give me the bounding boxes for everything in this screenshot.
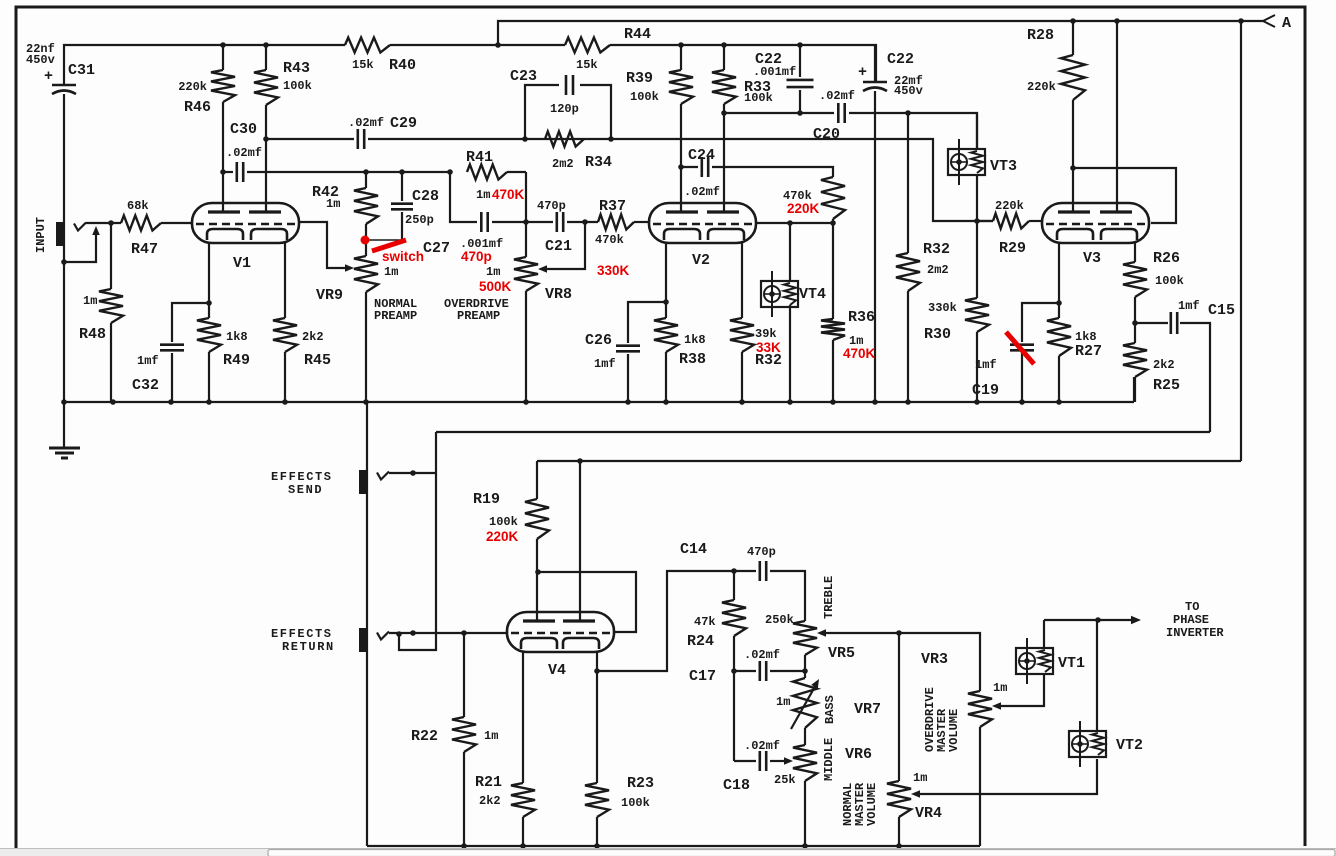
- wire B+ rail y45 (left of R40): [64, 45, 345, 85]
- bottom ground rail: [367, 845, 980, 847]
- wire B+ rail y45 (R40 to R44): [390, 44, 565, 46]
- wire V4 plate2 supply: [579, 461, 581, 622]
- svg-text:VOLUME: VOLUME: [947, 709, 961, 752]
- input jack: [56, 222, 64, 246]
- wire B+ from node A to R19: [537, 21, 1241, 461]
- tube V4 envelope: [507, 612, 614, 652]
- scrollbar thumb: [268, 850, 1335, 856]
- svg-text:C18: C18: [723, 777, 750, 794]
- svg-text:470p: 470p: [747, 545, 776, 559]
- potentiometer VR6 25k middle: [804, 728, 806, 745]
- svg-text:1k8: 1k8: [226, 330, 248, 344]
- wire V4 cathode2 to tone stack: [597, 571, 734, 671]
- tube V3 cathodes: [1057, 229, 1093, 240]
- potentiometer VR4 1m normal master volume: [898, 633, 900, 781]
- svg-text:V4: V4: [548, 662, 566, 679]
- svg-text:.001mf: .001mf: [753, 65, 796, 79]
- svg-text:C17: C17: [689, 668, 716, 685]
- svg-text:C31: C31: [68, 62, 95, 79]
- svg-text:VR8: VR8: [545, 286, 572, 303]
- optocoupler VT1: [1016, 648, 1053, 674]
- svg-text:250k: 250k: [765, 613, 794, 627]
- svg-text:1m: 1m: [384, 265, 398, 279]
- resistor R43 100k: [265, 45, 267, 70]
- svg-text:C24: C24: [688, 147, 715, 164]
- svg-text:1mf: 1mf: [137, 354, 159, 368]
- resistor R19 100k (220K): [536, 461, 538, 499]
- svg-text:450v: 450v: [894, 84, 923, 98]
- svg-text:C14: C14: [680, 541, 707, 558]
- svg-text:R39: R39: [626, 70, 653, 87]
- svg-text:R45: R45: [304, 352, 331, 369]
- svg-text:VT1: VT1: [1058, 655, 1085, 672]
- svg-text:C28: C28: [412, 188, 439, 205]
- capacitor C32 1mf: [172, 303, 209, 342]
- resistor R47 68k: [121, 216, 161, 231]
- svg-text:1m: 1m: [83, 294, 97, 308]
- svg-text:C22: C22: [887, 51, 914, 68]
- svg-text:.02mf: .02mf: [819, 89, 855, 103]
- wire jack ground column: [366, 402, 368, 846]
- wire VR8 wiper from R37 node: [546, 222, 585, 269]
- tube V3 plates: [1058, 210, 1090, 213]
- effects return jack: [359, 628, 367, 652]
- svg-text:330k: 330k: [928, 301, 957, 315]
- wire C31 column down to ground rail: [63, 94, 65, 402]
- svg-text:MIDDLE: MIDDLE: [822, 738, 836, 781]
- svg-text:1m: 1m: [913, 771, 927, 785]
- svg-text:VR9: VR9: [316, 287, 343, 304]
- tube V1 cathodes: [207, 229, 243, 240]
- potentiometer VR7 1m bass (rheostat): [793, 678, 817, 728]
- wire to phase inverter: [1044, 619, 1133, 621]
- capacitor C21 470p: [526, 221, 553, 223]
- ground rail y402: [64, 377, 1134, 402]
- svg-text:2k2: 2k2: [302, 330, 324, 344]
- resistor R46 220k: [222, 45, 224, 70]
- svg-text:2k2: 2k2: [479, 794, 501, 808]
- svg-text:R30: R30: [924, 326, 951, 343]
- svg-text:R26: R26: [1153, 250, 1180, 267]
- resistor R28 220k: [1072, 21, 1074, 55]
- svg-text:V2: V2: [692, 252, 710, 269]
- svg-text:R29: R29: [999, 240, 1026, 257]
- capacitor C24 .02mf plate coupling: [681, 166, 698, 168]
- ground symbol: [63, 402, 65, 447]
- wire B+ rail y45 (right of R44): [610, 45, 876, 81]
- svg-text:100k: 100k: [744, 91, 773, 105]
- wire node A rail y21: [498, 21, 1263, 45]
- capacitor C17 .02mf: [734, 670, 756, 672]
- svg-text:VT2: VT2: [1116, 737, 1143, 754]
- svg-text:switch: switch: [382, 249, 424, 264]
- svg-text:15k: 15k: [576, 58, 598, 72]
- svg-text:R47: R47: [131, 241, 158, 258]
- svg-text:2m2: 2m2: [552, 157, 574, 171]
- tube V3 envelope: [1042, 203, 1149, 243]
- svg-text:VR7: VR7: [854, 701, 881, 718]
- tube V2 envelope: [649, 203, 756, 243]
- capacitor C14 470p: [734, 570, 756, 572]
- potentiometer VR3 1m overdrive master volume: [968, 691, 992, 727]
- svg-text:VR4: VR4: [915, 805, 942, 822]
- resistor R42 1m: [365, 172, 367, 188]
- effects send jack: [359, 470, 367, 494]
- resistor R30 330k: [976, 221, 978, 298]
- wire V4 plate1 to grid2 loop: [538, 572, 636, 632]
- resistor R26 100k: [1134, 243, 1136, 262]
- svg-text:2k2: 2k2: [1153, 358, 1175, 372]
- svg-text:R46: R46: [184, 99, 211, 116]
- resistor R48 1m: [110, 223, 112, 289]
- svg-text:BASS: BASS: [823, 695, 837, 724]
- resistor R38 1k8: [665, 243, 667, 318]
- svg-text:R25: R25: [1153, 377, 1180, 394]
- svg-text:R23: R23: [627, 775, 654, 792]
- svg-text:R19: R19: [473, 491, 500, 508]
- svg-text:R32: R32: [923, 241, 950, 258]
- capacitor C28 250p: [401, 172, 403, 201]
- capacitor C26 1mf: [628, 302, 666, 343]
- wire VR5 wiper line: [824, 633, 980, 691]
- svg-text:A: A: [1282, 15, 1291, 32]
- svg-text:INVERTER: INVERTER: [1166, 626, 1224, 640]
- svg-text:C15: C15: [1208, 302, 1235, 319]
- svg-text:EFFECTS: EFFECTS: [271, 627, 333, 641]
- svg-text:1mf: 1mf: [975, 358, 997, 372]
- resistor R40 15k: [345, 38, 390, 53]
- svg-text:VT4: VT4: [799, 286, 826, 303]
- scrollbar track: [0, 848, 1336, 856]
- svg-text:470K: 470K: [843, 346, 876, 361]
- svg-text:C27: C27: [423, 240, 450, 257]
- wire effects return to V4 grid: [389, 632, 507, 634]
- svg-text:220k: 220k: [178, 80, 207, 94]
- svg-text:PHASE: PHASE: [1173, 613, 1209, 627]
- svg-text:100k: 100k: [283, 79, 312, 93]
- svg-text:25k: 25k: [774, 773, 796, 787]
- svg-text:100k: 100k: [489, 515, 518, 529]
- svg-text:1m: 1m: [776, 695, 790, 709]
- svg-text:220k: 220k: [995, 199, 1024, 213]
- svg-text:+: +: [858, 64, 867, 81]
- svg-text:VOLUME: VOLUME: [865, 783, 879, 826]
- svg-text:1m: 1m: [476, 188, 490, 202]
- svg-text:C19: C19: [972, 382, 999, 399]
- svg-text:VR6: VR6: [845, 746, 872, 763]
- resistor R44 15k: [565, 38, 610, 53]
- svg-text:500K: 500K: [479, 279, 512, 294]
- svg-text:250p: 250p: [405, 213, 434, 227]
- resistor R21 2k2: [522, 652, 524, 783]
- optocoupler VT3: [948, 149, 985, 175]
- svg-text:450v: 450v: [26, 53, 55, 67]
- tube V2 plates: [666, 210, 698, 213]
- wire effects send: [389, 472, 436, 474]
- svg-text:C21: C21: [545, 238, 572, 255]
- svg-text:39k: 39k: [755, 327, 777, 341]
- svg-text:VT3: VT3: [990, 158, 1017, 175]
- svg-text:.02mf: .02mf: [348, 116, 384, 130]
- capacitor C31 22mf 450v: [52, 84, 76, 87]
- svg-text:470p: 470p: [537, 199, 566, 213]
- potentiometer VR9 1m normal preamp: [354, 256, 378, 292]
- svg-text:470k: 470k: [595, 233, 624, 247]
- potentiometer VR5 250k treble: [793, 621, 817, 655]
- svg-text:.02mf: .02mf: [226, 146, 262, 160]
- svg-text:R27: R27: [1075, 343, 1102, 360]
- svg-text:R41: R41: [466, 149, 493, 166]
- wire VR4 wiper from VT2: [919, 759, 1097, 794]
- svg-text:R48: R48: [79, 326, 106, 343]
- svg-text:100k: 100k: [1155, 274, 1184, 288]
- svg-text:R44: R44: [624, 26, 651, 43]
- tube V2 grid (dashed): [653, 223, 752, 225]
- svg-text:R32: R32: [755, 352, 782, 369]
- resistor R24 47k: [733, 571, 735, 600]
- svg-text:C23: C23: [510, 68, 537, 85]
- svg-text:SEND: SEND: [288, 483, 323, 497]
- svg-text:V3: V3: [1083, 250, 1101, 267]
- svg-text:R49: R49: [223, 352, 250, 369]
- svg-text:TO: TO: [1185, 600, 1199, 614]
- svg-text:R34: R34: [585, 154, 612, 171]
- capacitor C23 120p with resistor R34 2m2 bridge: [525, 85, 559, 139]
- wire VR3 wiper to VT1: [1000, 675, 1044, 706]
- svg-text:VR3: VR3: [921, 651, 948, 668]
- wire R41 left vertical: [450, 172, 477, 222]
- svg-text:RETURN: RETURN: [282, 640, 335, 654]
- svg-text:C30: C30: [230, 121, 257, 138]
- resistor R32 39k (33K): [741, 243, 743, 318]
- svg-text:1k8: 1k8: [1075, 330, 1097, 344]
- wire overdrive node down to VR8: [525, 172, 527, 257]
- tube V1 envelope: [192, 203, 299, 243]
- tube V4 cathodes: [521, 638, 557, 649]
- svg-text:1k8: 1k8: [684, 333, 706, 347]
- svg-text:R28: R28: [1027, 27, 1054, 44]
- resistor R29 220k: [977, 220, 993, 222]
- svg-text:1m: 1m: [486, 265, 500, 279]
- tube V1 plates: [208, 210, 240, 213]
- svg-text:220k: 220k: [1027, 80, 1056, 94]
- svg-text:R43: R43: [283, 60, 310, 77]
- svg-text:470p: 470p: [461, 249, 492, 264]
- svg-text:R40: R40: [389, 57, 416, 74]
- tube V1 grid (dashed): [196, 223, 295, 225]
- screen line y113: [724, 112, 834, 114]
- svg-text:C29: C29: [390, 115, 417, 132]
- svg-text:V1: V1: [233, 255, 251, 272]
- svg-text:TREBLE: TREBLE: [822, 576, 836, 619]
- svg-text:330K: 330K: [597, 263, 630, 278]
- svg-text:INPUT: INPUT: [34, 217, 48, 253]
- svg-text:EFFECTS: EFFECTS: [271, 470, 333, 484]
- capacitor C15 1mf: [1135, 322, 1168, 324]
- resistor R39 100k: [680, 45, 682, 70]
- svg-text:.02mf: .02mf: [744, 648, 780, 662]
- resistor R45 2k2: [284, 243, 286, 318]
- wire R47 to V1 grid: [161, 222, 192, 224]
- resistor R36 1m (470K): [832, 223, 834, 319]
- capacitor C19 1mf: [1022, 303, 1059, 342]
- resistor R49 1k8: [208, 243, 210, 318]
- capacitor C29 .02mf line to V3: [266, 138, 354, 140]
- svg-text:120p: 120p: [550, 102, 579, 116]
- svg-text:R22: R22: [411, 728, 438, 745]
- capacitor C30 .02mf line: [223, 171, 233, 173]
- resistor R37 470k (330K): [598, 215, 634, 230]
- optocoupler VT4: [761, 281, 798, 307]
- svg-text:2m2: 2m2: [927, 263, 949, 277]
- resistor R22 1m: [463, 633, 465, 717]
- svg-text:220K: 220K: [486, 529, 519, 544]
- svg-text:C26: C26: [585, 332, 612, 349]
- svg-text:68k: 68k: [127, 199, 149, 213]
- svg-text:R36: R36: [848, 309, 875, 326]
- red strike annotation on C19: [1006, 332, 1034, 364]
- svg-text:1m: 1m: [484, 729, 498, 743]
- svg-text:PREAMP: PREAMP: [457, 309, 500, 323]
- svg-text:.02mf: .02mf: [684, 185, 720, 199]
- node A arrowhead: [1263, 15, 1275, 27]
- wire R42/C28 bottom join: [366, 239, 402, 241]
- svg-text:1m: 1m: [326, 197, 340, 211]
- capacitor C20 .02mf: [837, 103, 840, 123]
- svg-text:1m: 1m: [993, 681, 1007, 695]
- svg-text:100k: 100k: [621, 796, 650, 810]
- optocoupler VT2: [1069, 731, 1106, 757]
- capacitor C27 .001mf: [480, 212, 483, 232]
- capacitor C18 .02mf: [734, 760, 756, 762]
- svg-text:R38: R38: [679, 351, 706, 368]
- wire V3 plate-grid loop: [1073, 168, 1176, 223]
- svg-text:100k: 100k: [630, 90, 659, 104]
- wire send bus from C15: [436, 431, 1210, 433]
- resistor R27 1k8: [1058, 243, 1060, 318]
- svg-text:.02mf: .02mf: [744, 739, 780, 753]
- resistor R25 2k2: [1123, 343, 1147, 377]
- svg-text:PREAMP: PREAMP: [374, 309, 417, 323]
- capacitor C22 .001mf: [799, 45, 801, 77]
- wire V3 right plate to A rail: [1116, 21, 1118, 212]
- wire V1 grid2 to VR9 wiper: [299, 222, 346, 268]
- svg-text:R37: R37: [599, 198, 626, 215]
- wire V2 grid2 line: [756, 222, 833, 224]
- resistor 470k (220K) to V2 grid2: [821, 177, 845, 219]
- svg-text:1mf: 1mf: [1178, 299, 1200, 313]
- wire input jack branch: [64, 234, 96, 262]
- resistor R33 100k: [723, 45, 725, 70]
- svg-text:+: +: [44, 68, 53, 85]
- svg-text:220K: 220K: [787, 201, 820, 216]
- svg-text:C32: C32: [132, 377, 159, 394]
- resistor R41 1m (470K): [467, 165, 507, 180]
- capacitor C22 22mf 450v electrolytic: [874, 45, 876, 82]
- tube V4 plates: [523, 619, 555, 622]
- optocoupler VT4: [789, 223, 791, 281]
- wire input to R47: [86, 222, 121, 224]
- svg-text:470K: 470K: [492, 187, 525, 202]
- tube V3 grid (dashed): [1046, 223, 1145, 225]
- svg-text:VR5: VR5: [828, 645, 855, 662]
- svg-text:15k: 15k: [352, 58, 374, 72]
- svg-text:R24: R24: [687, 633, 714, 650]
- resistor R32 2m2: [907, 113, 909, 253]
- tube V2 cathodes: [664, 229, 700, 240]
- potentiometer VR8 1m overdrive preamp: [514, 257, 538, 291]
- svg-text:1mf: 1mf: [594, 357, 616, 371]
- resistor R23 100k: [596, 652, 598, 671]
- resistor R34 2m2: [545, 132, 584, 147]
- svg-text:R21: R21: [475, 774, 502, 791]
- svg-text:47k: 47k: [694, 615, 716, 629]
- red switch annotation: [361, 236, 370, 245]
- tube V4 grid (dashed): [511, 632, 610, 634]
- svg-text:C20: C20: [813, 126, 840, 143]
